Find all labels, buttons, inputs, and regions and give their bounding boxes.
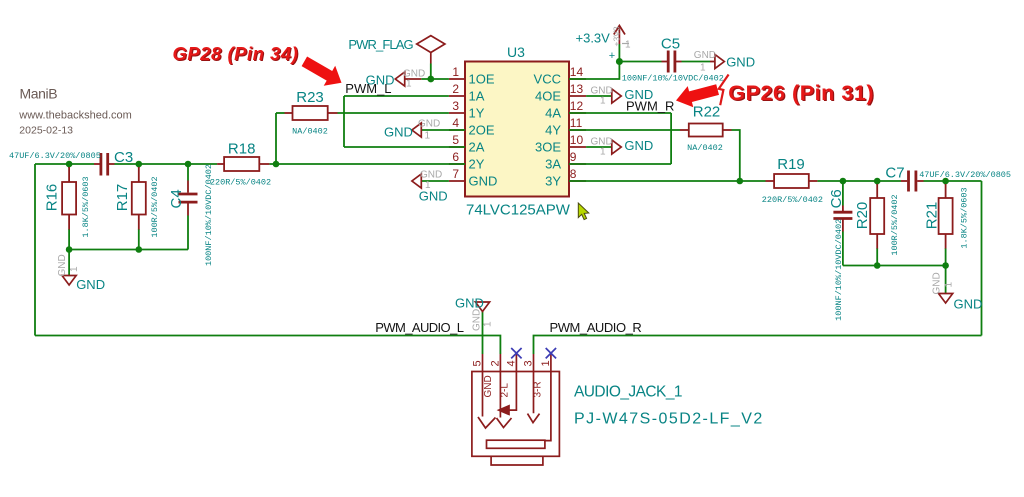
svg-text:GND: GND	[624, 138, 653, 153]
svg-text:1: 1	[452, 65, 459, 79]
wire pin 4 GND	[421, 129, 465, 131]
jack pin 2 stub	[499, 354, 501, 372]
wire R23 vertical	[275, 113, 277, 164]
svg-text:1: 1	[600, 96, 606, 107]
no-connect X pin 1	[546, 348, 556, 358]
svg-text:3-R: 3-R	[533, 381, 544, 397]
svg-text:GND: GND	[455, 296, 484, 311]
svg-text:1A: 1A	[469, 89, 485, 104]
svg-text:1.8K/5%/0603: 1.8K/5%/0603	[960, 187, 970, 248]
svg-text:11: 11	[570, 116, 583, 130]
junction R20 bottom	[874, 262, 881, 269]
wire R22 right vertical	[732, 130, 740, 181]
power +3.3V symbol	[614, 26, 625, 45]
pin stub 2	[449, 95, 465, 97]
svg-text:C5: C5	[661, 36, 680, 53]
ground R21 down arrow	[939, 294, 953, 304]
wire GND drop left	[68, 250, 70, 276]
junction C6 top	[840, 178, 847, 185]
svg-text:220R/5%/0402: 220R/5%/0402	[762, 195, 823, 205]
svg-text:12: 12	[570, 99, 584, 113]
svg-text:R18: R18	[228, 141, 256, 158]
wire pin 5	[344, 146, 465, 148]
wire left vertical PWM_AUDIO_L	[34, 164, 36, 336]
wire R20 branch bottom	[876, 248, 878, 266]
resistor R21	[939, 184, 953, 249]
wire bottom PWM_AUDIO_L	[35, 336, 500, 355]
junction R23 node	[273, 161, 280, 168]
svg-text:GND: GND	[469, 174, 498, 189]
svg-text:ManiB: ManiB	[20, 86, 58, 102]
svg-text:R17: R17	[114, 184, 131, 212]
pin stub 8	[569, 180, 586, 182]
svg-text:PJ-W47S-05D2-LF_V2: PJ-W47S-05D2-LF_V2	[574, 410, 764, 427]
capacitor C6	[833, 212, 852, 218]
wire pin 2	[344, 95, 449, 97]
svg-text:R16: R16	[44, 184, 61, 212]
svg-text:100R/5%/0402: 100R/5%/0402	[150, 176, 160, 237]
ground pin13 right arrow	[612, 89, 621, 103]
svg-text:GND: GND	[420, 170, 442, 181]
wire R19 to C7 row	[817, 180, 901, 182]
op-amp U3 body	[465, 62, 569, 197]
svg-text:3: 3	[523, 360, 535, 366]
svg-text:6: 6	[452, 150, 459, 164]
wire R23 left horizontal	[276, 112, 285, 114]
pin stub 10	[569, 146, 586, 148]
svg-text:1: 1	[625, 40, 631, 51]
ground pin10 right arrow	[612, 140, 621, 154]
wire C4 branch top	[187, 164, 189, 181]
wire top filter row left	[35, 163, 94, 165]
power flag PWR_FLAG	[417, 36, 445, 64]
ground pin4 left arrow	[412, 123, 421, 137]
svg-text:1: 1	[406, 79, 412, 90]
svg-text:+: +	[609, 50, 615, 62]
svg-text:4: 4	[506, 360, 518, 366]
svg-text:1: 1	[425, 180, 431, 191]
junction R21 bottom	[942, 262, 949, 269]
svg-text:4A: 4A	[545, 106, 561, 121]
svg-text:GP26 (Pin 31): GP26 (Pin 31)	[728, 81, 874, 105]
svg-text:GND: GND	[932, 272, 943, 294]
capacitor C4	[179, 194, 198, 202]
wire pin 9 PWM_R	[569, 163, 671, 165]
pin stub 5	[449, 146, 465, 148]
svg-text:14: 14	[570, 65, 584, 79]
jack pin5 internal contact	[478, 372, 496, 429]
svg-text:7: 7	[452, 167, 459, 181]
wire +3.3V stem	[618, 44, 620, 62]
junction R17 top	[136, 161, 143, 168]
wire R16 branch bottom	[68, 229, 70, 250]
pin stub 11	[569, 129, 586, 131]
resistor R18	[217, 157, 269, 171]
svg-text:www.thebackshed.com: www.thebackshed.com	[18, 110, 132, 122]
svg-text:5: 5	[452, 133, 459, 147]
svg-text:1: 1	[425, 131, 431, 142]
svg-text:+3.3V: +3.3V	[576, 31, 611, 46]
svg-text:1OE: 1OE	[469, 72, 495, 87]
junction R16 top	[66, 161, 73, 168]
pin stub 3	[449, 112, 465, 114]
wire R17 branch top	[138, 164, 140, 168]
svg-text:3A: 3A	[545, 157, 561, 172]
svg-text:2OE: 2OE	[469, 123, 495, 138]
wire GND drop right	[945, 266, 947, 294]
svg-text:GND: GND	[418, 119, 440, 130]
wire R17 branch bottom	[138, 229, 140, 250]
wire C5 right to GND	[682, 61, 711, 63]
svg-text:1: 1	[944, 282, 955, 288]
svg-text:1.8K/5%/0603: 1.8K/5%/0603	[81, 176, 91, 237]
no-connect X pin 4	[511, 348, 521, 358]
svg-text:C6: C6	[828, 189, 845, 208]
ghost tick +3.3V	[622, 43, 629, 45]
svg-text:5: 5	[472, 360, 484, 366]
wire pin 14 VCC	[569, 62, 619, 80]
ground pin1 left arrow	[395, 72, 404, 86]
svg-text:9: 9	[570, 150, 577, 164]
junction PWR_FLAG	[427, 76, 434, 83]
svg-text:PWM_AUDIO_L: PWM_AUDIO_L	[375, 320, 463, 335]
svg-text:100NF/10%/10VDC/0402: 100NF/10%/10VDC/0402	[834, 219, 844, 321]
svg-text:2Y: 2Y	[469, 157, 485, 172]
svg-text:GND: GND	[726, 55, 755, 70]
svg-text:GND: GND	[694, 50, 716, 61]
pin stub 9	[569, 163, 586, 165]
resistor R20	[870, 184, 884, 249]
jack pin 3 stub	[533, 354, 535, 372]
svg-text:47UF/6.3V/20%/0805: 47UF/6.3V/20%/0805	[919, 170, 1011, 180]
svg-text:2025-02-13: 2025-02-13	[19, 124, 73, 136]
svg-text:GND: GND	[384, 125, 413, 140]
svg-text:1: 1	[540, 360, 552, 366]
wire PWR_FLAG stem	[430, 64, 432, 80]
svg-text:GND: GND	[57, 254, 68, 276]
capacitor C7 leads	[901, 180, 924, 182]
svg-text:3OE: 3OE	[535, 140, 561, 155]
ground jack down arrow	[475, 302, 489, 312]
connector AUDIO_JACK_1 body	[472, 372, 560, 457]
svg-text:GND: GND	[76, 277, 105, 292]
jack pin3 internal contact	[528, 372, 540, 423]
svg-text:R21: R21	[924, 202, 941, 230]
jack pin 5 stub	[482, 354, 484, 372]
svg-text:47UF/6.3V/20%/0805: 47UF/6.3V/20%/0805	[9, 151, 101, 161]
pin stub 13	[569, 95, 586, 97]
svg-text:NA/0402: NA/0402	[292, 126, 328, 136]
jack pin 1 stub	[550, 354, 552, 372]
resistor R16	[62, 167, 76, 230]
svg-text:8: 8	[570, 167, 577, 181]
junction R16 bottom	[66, 246, 73, 253]
wire jack GND vertical	[482, 312, 484, 355]
wire right bottom rail	[843, 265, 946, 267]
svg-text:R19: R19	[777, 156, 805, 173]
jack pin 4 stub	[515, 354, 517, 372]
jack pin2 internal contact	[497, 372, 512, 428]
svg-text:R23: R23	[296, 89, 324, 106]
wire pin 10 GND	[586, 146, 612, 148]
junction R17 bottom	[136, 246, 143, 253]
wire top filter row C3 to R18	[115, 163, 218, 165]
pin stub 14	[569, 78, 586, 80]
svg-text:100R/5%/0402: 100R/5%/0402	[890, 194, 900, 255]
wire PWM_R vertical	[670, 113, 672, 164]
svg-text:R20: R20	[854, 202, 871, 230]
pin stub 7	[449, 180, 465, 182]
jack bottom tab	[491, 456, 543, 465]
wire PWM_L vertical	[343, 96, 345, 147]
annotation arrow right	[676, 84, 719, 107]
svg-text:220R/5%/0402: 220R/5%/0402	[210, 178, 271, 188]
junction R20 top	[874, 178, 881, 185]
svg-text:U3: U3	[507, 44, 525, 60]
svg-text:1: 1	[700, 63, 706, 74]
wire R21 branch bottom	[945, 248, 947, 266]
svg-text:VCC: VCC	[534, 72, 561, 87]
capacitor C3	[101, 153, 108, 176]
svg-text:74LVC125APW: 74LVC125APW	[466, 202, 571, 219]
wire R16 branch top	[68, 164, 70, 168]
wire pin 13 GND	[586, 95, 612, 97]
svg-text:GP28 (Pin 34): GP28 (Pin 34)	[173, 43, 299, 64]
ground R16 down arrow	[62, 276, 76, 286]
svg-text:GND: GND	[419, 189, 448, 204]
wire pin 8 to R19	[569, 180, 766, 182]
svg-text:PWR_FLAG: PWR_FLAG	[348, 37, 413, 52]
svg-text:2: 2	[490, 360, 502, 366]
wire pin 1 GND	[421, 78, 449, 80]
svg-text:3Y: 3Y	[545, 174, 561, 189]
svg-text:13: 13	[570, 82, 584, 96]
pin stub 4	[449, 129, 465, 131]
svg-text:GND: GND	[954, 297, 983, 312]
wire C6 branch top	[842, 181, 844, 206]
jack pin4 internal contact with switch arrow	[509, 372, 516, 411]
svg-text:10: 10	[570, 133, 584, 147]
pin stub 12	[569, 112, 586, 114]
wire right vertical PWM_AUDIO_R	[981, 181, 983, 336]
annotation lightning bolt	[719, 75, 729, 106]
svg-text:2: 2	[452, 82, 459, 96]
wire bottom PWM_AUDIO_R	[534, 336, 982, 355]
junction R21 top	[942, 178, 949, 185]
annotation arrow left	[302, 57, 342, 86]
svg-text:C3: C3	[114, 149, 133, 166]
svg-text:R22: R22	[693, 104, 721, 121]
junction C4 top	[185, 161, 192, 168]
capacitor C7	[909, 171, 916, 192]
svg-text:AUDIO_JACK_1: AUDIO_JACK_1	[574, 383, 682, 400]
wire R21 branch top	[945, 181, 947, 185]
wire C7 right	[924, 180, 982, 182]
resistor R23	[285, 106, 338, 120]
svg-text:1: 1	[483, 321, 494, 327]
svg-text:1Y: 1Y	[469, 106, 485, 121]
mouse cursor	[578, 203, 589, 220]
svg-text:3: 3	[452, 99, 459, 113]
svg-text:4Y: 4Y	[545, 123, 561, 138]
svg-text:C4: C4	[168, 189, 185, 208]
wire C4 branch bottom	[187, 216, 189, 250]
svg-text:2A: 2A	[469, 140, 485, 155]
wire pin 7 GND	[421, 180, 449, 182]
svg-text:GND: GND	[472, 309, 483, 331]
pin stub 6	[449, 163, 465, 165]
svg-text:PWM_L: PWM_L	[345, 81, 391, 96]
svg-text:GND: GND	[483, 375, 494, 397]
svg-text:4OE: 4OE	[535, 89, 561, 104]
ground pin7 left arrow	[412, 174, 421, 188]
wire C5 left	[619, 61, 661, 63]
svg-text:+3V3: +3V3	[611, 26, 621, 46]
wire pin 12 PWM_R	[569, 112, 671, 114]
wire C6 branch bottom	[842, 232, 844, 266]
svg-text:1: 1	[600, 147, 606, 158]
svg-text:2-L: 2-L	[500, 383, 511, 398]
junction +3.3V	[616, 58, 623, 65]
svg-text:PWM_AUDIO_R: PWM_AUDIO_R	[550, 320, 642, 335]
svg-text:PWM_R: PWM_R	[626, 99, 674, 114]
junction R22 bottom	[737, 178, 744, 185]
svg-text:4: 4	[452, 116, 459, 130]
jack pin1 internal to sleeve	[545, 372, 551, 441]
svg-text:100NF/10%/10VDC/0402: 100NF/10%/10VDC/0402	[622, 74, 724, 84]
pin stub 1	[449, 78, 465, 80]
wire R23 right to IC pin 3	[338, 112, 449, 114]
wire R20 branch top	[876, 181, 878, 185]
resistor R17	[132, 167, 146, 230]
wire R18 to IC pin 6	[269, 163, 465, 165]
capacitor C5	[668, 51, 675, 73]
jack sleeve bar	[487, 440, 545, 448]
resistor R19	[766, 174, 818, 188]
svg-text:C7: C7	[885, 165, 904, 182]
ground C5 right arrow	[715, 55, 724, 69]
resistor R22	[680, 124, 732, 137]
svg-text:NA/0402: NA/0402	[687, 143, 723, 153]
wire pin 11 to R22	[569, 129, 680, 131]
wire left bottom rail	[69, 249, 188, 251]
svg-text:1: 1	[69, 266, 80, 272]
